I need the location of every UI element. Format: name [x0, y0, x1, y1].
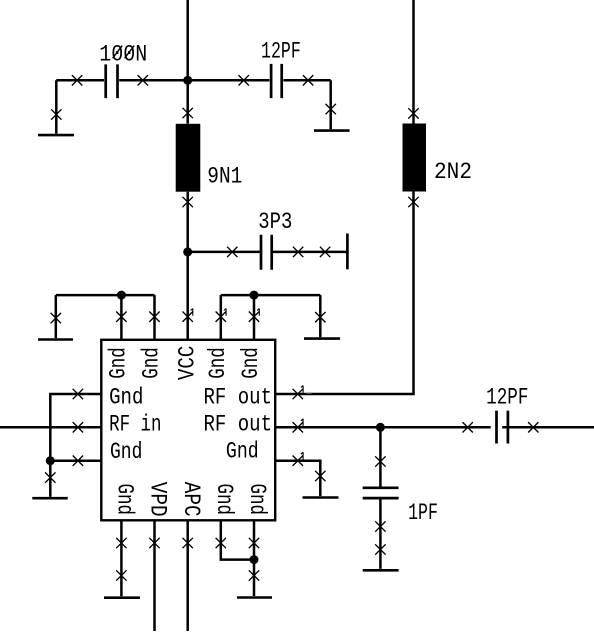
- capacitor 12PF right: [491, 411, 508, 444]
- wire pin5 stub: [249, 295, 260, 340]
- svg-text:Gnd: Gnd: [105, 347, 131, 379]
- svg-text:12PF: 12PF: [486, 385, 528, 411]
- junction at rail: [183, 76, 192, 85]
- wire 2N2 feed and RF out row1: [275, 0, 418, 399]
- svg-text:3P3: 3P3: [258, 209, 292, 235]
- wire 3P3 branch: [188, 247, 347, 257]
- wire RF out row2 to capacitor: [275, 419, 594, 433]
- capacitor 1PF: [363, 488, 399, 498]
- junction pin5 rail: [250, 291, 259, 300]
- svg-text:2N2: 2N2: [434, 159, 472, 185]
- wire drop to ground top-right: [315, 295, 325, 337]
- value label 9N1: [207, 164, 242, 190]
- value label 100N: [99, 41, 147, 67]
- value label 3P3: [258, 209, 292, 235]
- capacitor 100N: [106, 64, 118, 98]
- junction bottom gnd: [250, 555, 259, 564]
- rail above pins 4-5: [221, 294, 320, 297]
- svg-text:100N: 100N: [99, 41, 147, 67]
- wire left Gnd row3: [50, 456, 102, 466]
- rail above pins 1-2: [56, 294, 155, 297]
- svg-text:12PF: 12PF: [261, 39, 301, 65]
- pin label Gnd top col5: [238, 347, 264, 379]
- wire left Gnd row1: [50, 389, 102, 461]
- pin label Gnd left row1: [109, 385, 143, 411]
- wire top rail: [56, 75, 330, 85]
- wire pin2 stub: [149, 295, 159, 340]
- ground: [237, 596, 272, 599]
- svg-text:Gnd: Gnd: [110, 439, 142, 465]
- pin label Gnd top col1: [105, 347, 131, 379]
- junction left gnd: [46, 456, 55, 465]
- value label 1PF: [408, 500, 438, 526]
- value label 12PF: [486, 385, 528, 411]
- pin label Gnd left row3: [110, 439, 142, 465]
- pin label Gnd top col4: [205, 347, 231, 379]
- wire 12PF drop to ground: [326, 80, 336, 129]
- svg-text:RF in: RF in: [109, 411, 161, 437]
- ground: [38, 338, 73, 341]
- inductor 9N1: [176, 124, 201, 192]
- svg-text:VCC: VCC: [175, 346, 201, 381]
- wire VPD: [149, 520, 159, 631]
- wire pin4 stub: [216, 295, 226, 340]
- svg-text:Gnd: Gnd: [139, 347, 165, 379]
- pin label VCC: [175, 346, 201, 381]
- capacitor 12PF top: [271, 64, 282, 98]
- pin label VPD: [144, 482, 170, 517]
- pin label Gnd top col2: [139, 347, 165, 379]
- wire bottom pin4 jog: [216, 520, 254, 559]
- value label 2N2: [434, 159, 472, 185]
- svg-text:APC: APC: [178, 482, 204, 517]
- wire pin1 stub: [116, 295, 126, 340]
- wire bottom pin5 to ground: [249, 520, 259, 596]
- svg-text:Gnd: Gnd: [109, 385, 143, 411]
- svg-text:RF out: RF out: [204, 385, 273, 411]
- svg-text:Gnd: Gnd: [244, 484, 270, 516]
- wire VCC vertical through 9N1: [183, 80, 193, 339]
- wire RF in: [0, 422, 102, 432]
- ground: [303, 496, 339, 499]
- value label 12PF: [261, 39, 301, 65]
- wire 1PF top: [375, 427, 385, 486]
- pin label RF in: [109, 411, 161, 437]
- ground: [304, 337, 340, 340]
- svg-text:1PF: 1PF: [408, 500, 438, 526]
- wire left drop to ground: [51, 80, 61, 133]
- svg-text:RF out: RF out: [204, 411, 273, 437]
- svg-text:VPD: VPD: [144, 482, 170, 517]
- capacitor 3P3: [261, 235, 272, 270]
- pin label Gnd bottom col1: [112, 484, 138, 516]
- junction at 3P3 branch: [183, 247, 192, 256]
- wire APC: [183, 520, 193, 631]
- pin label Gnd bottom col5: [244, 484, 270, 516]
- wire drop to ground top-left: [51, 295, 61, 338]
- svg-text:Gnd: Gnd: [205, 347, 231, 379]
- ground: [32, 497, 67, 500]
- pin label RF out row1: [204, 385, 273, 411]
- svg-text:Gnd: Gnd: [211, 484, 237, 516]
- IC U1 outline: [101, 340, 275, 521]
- svg-text:Gnd: Gnd: [238, 347, 264, 379]
- pin label RF out row2: [204, 411, 273, 437]
- wire top feed into rail: [186, 0, 189, 80]
- wire right Gnd row3: [275, 452, 325, 496]
- wire left gnd drop: [45, 461, 55, 497]
- svg-text:9N1: 9N1: [207, 164, 242, 190]
- pin label Gnd right row3: [226, 439, 259, 465]
- ground: [104, 596, 140, 599]
- svg-text:Gnd: Gnd: [226, 439, 259, 465]
- inductor 2N2: [403, 124, 427, 192]
- ground: [38, 134, 74, 137]
- wire bottom pin1 to ground: [116, 520, 126, 596]
- svg-text:Gnd: Gnd: [112, 484, 138, 516]
- pin label Gnd bottom col4: [211, 484, 237, 516]
- ground: [314, 129, 350, 132]
- wire 1PF bottom: [375, 498, 385, 569]
- pin label APC: [178, 482, 204, 517]
- ground: [363, 569, 399, 572]
- junction 1PF tap: [376, 423, 385, 432]
- terminal stub: [346, 234, 349, 270]
- junction pin1 rail: [117, 291, 126, 300]
